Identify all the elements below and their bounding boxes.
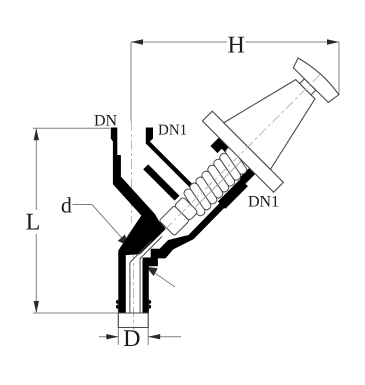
- leader d: [73, 205, 126, 242]
- svg-text:H: H: [228, 33, 245, 59]
- body: inlet right wall + branch upper wall: [146, 128, 197, 190]
- dimension L: [33, 128, 118, 313]
- bonnet cone: [224, 65, 328, 169]
- spigot end: [118, 313, 148, 328]
- bonnet flange: [202, 111, 283, 192]
- bellows convolution 2: [188, 182, 212, 212]
- bore edge line right: [146, 168, 166, 188]
- handwheel knob: [291, 55, 340, 104]
- svg-text:DN1: DN1: [158, 123, 187, 139]
- bellows convolution 4: [200, 170, 224, 200]
- bellows convolution 8: [224, 146, 248, 176]
- svg-text:D: D: [123, 326, 140, 352]
- svg-text:DN: DN: [94, 113, 118, 130]
- body: inlet left wall + seat partition + seat wedge + outlet left wall: [111, 128, 166, 314]
- bellows convolution 1: [183, 188, 207, 218]
- body: branch lower wall + seat step + outlet right wall: [143, 168, 256, 313]
- bonnet wall stub below flange (-v side): [210, 138, 231, 155]
- bellows convolution 3: [194, 176, 218, 206]
- valve disc: [159, 206, 189, 236]
- svg-text:d: d: [61, 193, 72, 218]
- stem neck: [300, 79, 316, 95]
- dimension D: [99, 309, 181, 345]
- svg-text:L: L: [26, 210, 41, 236]
- outlet bore lines: [130, 237, 162, 314]
- branch middle shelf wall (band2): [143, 164, 179, 200]
- dimension H: [131, 42, 339, 121]
- weld end barbs: [116, 300, 118, 310]
- centerlines: [132, 121, 153, 331]
- bellows underlay: [180, 148, 249, 217]
- bellows fold line: [195, 161, 241, 207]
- stem centerline: [165, 75, 320, 230]
- svg-text:DN1: DN1: [248, 193, 279, 210]
- leader arrow 2: [153, 272, 176, 288]
- bellows convolution 5: [206, 164, 230, 194]
- bellows convolution 7: [218, 152, 242, 182]
- bellows end collar: [174, 197, 198, 221]
- bellows convolution 6: [212, 158, 236, 188]
